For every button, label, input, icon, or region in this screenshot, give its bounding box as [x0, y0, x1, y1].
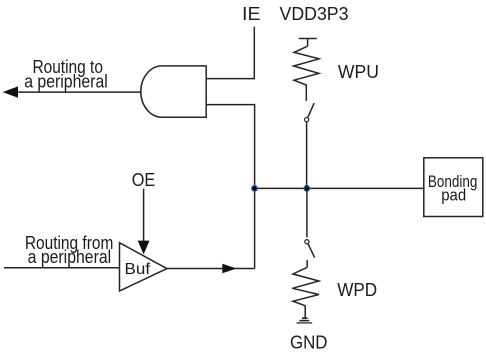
buffer Buf: [120, 243, 167, 291]
wire OE vertical: [143, 189, 145, 242]
and-gate U1: [141, 66, 206, 117]
junction node B: [303, 185, 310, 192]
switch S2 pivot circle: [305, 240, 309, 244]
switch S2 blade: [308, 244, 315, 258]
wire node horizontal: [255, 187, 424, 189]
ground: [297, 318, 313, 323]
wire node to S2: [306, 188, 308, 237]
svg-text:VDD3P3: VDD3P3: [280, 4, 349, 24]
terminal VDD3P3 T-bar: [299, 38, 317, 40]
svg-text:Buf: Buf: [125, 261, 151, 278]
svg-text:GND: GND: [290, 333, 328, 353]
wire VDD stub: [307, 39, 309, 47]
switch S1 blade: [308, 103, 314, 117]
wire S1 to node: [306, 122, 308, 188]
wire AND output: [10, 91, 141, 93]
wire buffer input: [4, 267, 120, 269]
switch S1 pivot circle: [305, 118, 309, 122]
bonding pad box: [424, 158, 483, 217]
resistor WPD: [292, 267, 319, 317]
wire IE vertical: [253, 27, 255, 79]
wire vertical riser: [254, 105, 256, 269]
svg-text:a peripheral: a peripheral: [28, 247, 112, 267]
svg-text:pad: pad: [441, 185, 466, 204]
svg-text:WPD: WPD: [337, 280, 377, 300]
wire buffer output: [167, 268, 255, 270]
junction node A: [251, 185, 258, 192]
arrowhead to peripheral: [3, 86, 18, 97]
wire AND bottom input: [206, 104, 255, 106]
wire WPD stub: [306, 260, 308, 267]
svg-text:WPU: WPU: [338, 62, 379, 82]
svg-text:IE: IE: [242, 4, 261, 24]
wire AND top input: [206, 78, 255, 80]
resistor WPU: [294, 46, 319, 101]
svg-text:a peripheral: a peripheral: [24, 72, 108, 92]
arrowhead buffer output: [222, 264, 236, 274]
svg-text:OE: OE: [132, 170, 156, 190]
arrowhead OE: [138, 241, 150, 255]
